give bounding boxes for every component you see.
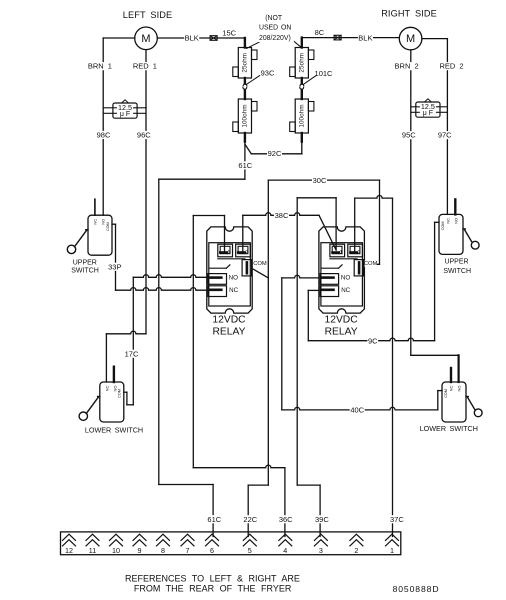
svg-text:RIGHT SIDE: RIGHT SIDE xyxy=(381,9,437,19)
svg-text:95C: 95C xyxy=(402,131,416,140)
svg-text:USED ON: USED ON xyxy=(259,24,291,31)
svg-text:38C: 38C xyxy=(275,211,289,220)
svg-text:μ F: μ F xyxy=(423,110,433,117)
svg-text:22C: 22C xyxy=(243,515,257,524)
svg-text:(NOT: (NOT xyxy=(265,15,283,22)
svg-text:RED 1: RED 1 xyxy=(133,62,157,71)
svg-text:25ohm: 25ohm xyxy=(241,53,248,73)
svg-text:100ohm: 100ohm xyxy=(241,104,248,127)
svg-text:M: M xyxy=(406,33,415,45)
svg-text:NC: NC xyxy=(104,386,109,392)
svg-text:7: 7 xyxy=(186,546,190,555)
svg-text:LEFT SIDE: LEFT SIDE xyxy=(123,10,172,20)
svg-text:30C: 30C xyxy=(313,176,327,185)
svg-text:RELAY: RELAY xyxy=(325,327,358,338)
svg-text:36C: 36C xyxy=(279,515,293,524)
svg-text:BLK: BLK xyxy=(185,33,199,42)
svg-text:RELAY: RELAY xyxy=(212,327,245,338)
svg-text:208/220V): 208/220V) xyxy=(259,35,291,42)
svg-text:9: 9 xyxy=(138,546,142,555)
svg-text:3: 3 xyxy=(319,546,323,555)
svg-text:NC: NC xyxy=(341,287,350,294)
svg-text:1: 1 xyxy=(340,250,343,256)
svg-text:96C: 96C xyxy=(137,131,151,140)
svg-text:37C: 37C xyxy=(390,515,404,524)
svg-text:SWITCH: SWITCH xyxy=(71,268,99,275)
svg-text:8050888D: 8050888D xyxy=(393,584,440,594)
svg-text:12VDC: 12VDC xyxy=(212,315,246,326)
svg-text:NO: NO xyxy=(454,218,459,224)
svg-text:SWITCH: SWITCH xyxy=(443,268,471,275)
svg-text:COM: COM xyxy=(253,261,267,267)
svg-text:100ohm: 100ohm xyxy=(298,104,305,127)
svg-text:RED 2: RED 2 xyxy=(439,62,463,71)
svg-text:8C: 8C xyxy=(315,28,325,37)
svg-text:REFERENCES TO LEFT & RIGHT ARE: REFERENCES TO LEFT & RIGHT ARE xyxy=(125,574,300,584)
svg-text:97C: 97C xyxy=(438,131,452,140)
svg-text:1: 1 xyxy=(228,250,231,256)
svg-text:COM: COM xyxy=(441,221,445,230)
svg-text:2: 2 xyxy=(245,250,248,256)
svg-text:6: 6 xyxy=(210,546,214,555)
svg-text:93C: 93C xyxy=(261,69,275,78)
svg-text:92C: 92C xyxy=(268,149,282,158)
svg-text:UPPER: UPPER xyxy=(73,259,97,266)
svg-text:40C: 40C xyxy=(350,406,364,415)
svg-text:8: 8 xyxy=(161,546,165,555)
svg-text:61C: 61C xyxy=(238,161,252,170)
svg-text:12: 12 xyxy=(65,546,73,555)
svg-text:LOWER SWITCH: LOWER SWITCH xyxy=(85,426,143,435)
svg-text:COM: COM xyxy=(444,389,448,398)
svg-text:COM: COM xyxy=(118,389,122,398)
svg-text:μ F: μ F xyxy=(120,111,130,118)
svg-text:4: 4 xyxy=(283,546,287,555)
svg-text:39C: 39C xyxy=(315,515,329,524)
svg-text:33P: 33P xyxy=(108,262,121,271)
svg-text:NC: NC xyxy=(229,287,238,294)
svg-text:NO: NO xyxy=(229,275,238,282)
svg-text:NC: NC xyxy=(93,219,98,225)
svg-text:2: 2 xyxy=(354,546,358,555)
svg-text:12VDC: 12VDC xyxy=(324,315,358,326)
svg-text:1: 1 xyxy=(390,546,394,555)
svg-text:101C: 101C xyxy=(315,69,334,78)
svg-text:BRN 1: BRN 1 xyxy=(88,62,112,71)
svg-text:5: 5 xyxy=(248,546,252,555)
svg-text:NC: NC xyxy=(445,218,450,224)
svg-text:11: 11 xyxy=(89,546,96,555)
svg-text:2: 2 xyxy=(358,250,361,256)
svg-text:98C: 98C xyxy=(97,131,111,140)
svg-text:10: 10 xyxy=(112,546,120,555)
svg-text:UPPER: UPPER xyxy=(444,258,468,265)
svg-text:M: M xyxy=(141,33,150,45)
svg-text:FROM THE REAR OF THE FRYER: FROM THE REAR OF THE FRYER xyxy=(134,583,292,593)
svg-text:15C: 15C xyxy=(222,29,236,38)
svg-text:BLK: BLK xyxy=(358,34,372,43)
svg-text:9C: 9C xyxy=(368,336,378,345)
svg-text:COM: COM xyxy=(106,222,110,231)
svg-text:NO: NO xyxy=(341,275,350,282)
svg-text:NC: NC xyxy=(448,386,453,392)
svg-text:LOWER SWITCH: LOWER SWITCH xyxy=(420,424,478,433)
svg-text:COM: COM xyxy=(364,261,378,267)
svg-text:25ohm: 25ohm xyxy=(298,53,305,73)
svg-text:BRN 2: BRN 2 xyxy=(395,62,419,71)
svg-text:61C: 61C xyxy=(207,515,221,524)
svg-text:17C: 17C xyxy=(125,349,139,358)
svg-text:NO: NO xyxy=(457,386,462,392)
